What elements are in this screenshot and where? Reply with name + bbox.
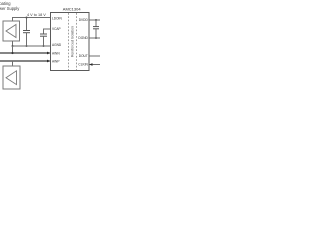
junction: C1 to rail	[26, 17, 28, 19]
junction: C1 to ground rail	[26, 45, 28, 47]
wire: VCAP pin wire	[44, 29, 51, 34]
svg-text:Reinforced Isolation: Reinforced Isolation	[71, 26, 75, 57]
capacitor C2 plates	[40, 33, 47, 35]
junction: ground rail to phase tap	[12, 45, 14, 47]
wire: DGND pin wire	[89, 37, 100, 39]
wire: LDOIN supply rail	[12, 17, 51, 19]
node: floating power supply label (clipped at left edge)	[0, 1, 20, 11]
svg-text:DOUT: DOUT	[79, 54, 88, 58]
wire: AINN input wire	[0, 52, 50, 54]
wire: AGND ground rail	[13, 45, 51, 47]
svg-text:AMC1304: AMC1304	[63, 7, 82, 12]
power supply U2 (floating supply block, box)	[3, 21, 20, 41]
arrow: AINN pin arrowhead	[47, 52, 50, 55]
isolation barrier left dashed line	[68, 13, 70, 70]
gate driver U3 (lower block, box)	[3, 66, 20, 89]
svg-text:DVDD: DVDD	[79, 18, 89, 22]
svg-text:DGND: DGND	[78, 36, 88, 40]
svg-text:AINN: AINN	[52, 52, 60, 56]
wire: lower box riser	[12, 61, 14, 66]
capacitor C3 upper lead	[95, 20, 97, 27]
svg-text:Power Supply: Power Supply	[0, 6, 20, 11]
capacitor C3 lower lead	[95, 29, 97, 38]
wire: AINP input wire	[0, 60, 50, 62]
isolation barrier right dashed line	[76, 13, 78, 70]
junction: DVDD to C3	[95, 19, 97, 21]
svg-text:AGND: AGND	[52, 43, 62, 47]
svg-text:LDOIN: LDOIN	[52, 16, 62, 20]
wire: ground to shunt top	[12, 46, 14, 53]
op-amp U1 AMC1304 body	[51, 13, 90, 71]
power supply U2 triangle symbol	[6, 25, 16, 38]
capacitor C1 upper lead	[26, 18, 28, 31]
svg-text:VCAP: VCAP	[52, 27, 61, 31]
junction: C2 to ground rail	[43, 45, 45, 47]
junction: AINN wire tap	[11, 52, 13, 54]
wire: CLKIN pin wire	[89, 64, 100, 66]
arrow: AINP pin arrowhead	[47, 60, 50, 63]
wire: supply box return riser	[12, 41, 14, 46]
svg-text:4 V to 18 V: 4 V to 18 V	[27, 13, 46, 17]
wire: DOUT pin wire	[89, 55, 100, 57]
wire: supply box output riser	[12, 18, 14, 22]
capacitor C2 lower lead	[43, 36, 45, 46]
capacitor C1 plates	[23, 30, 30, 32]
arrow: CLKIN input arrowhead	[89, 63, 92, 66]
capacitor C3 plates	[93, 26, 99, 28]
svg-text:AINP: AINP	[52, 60, 59, 64]
capacitor C1 lower lead	[26, 33, 28, 46]
svg-text:CLKIN: CLKIN	[78, 63, 88, 67]
wire: DVDD pin wire	[89, 19, 100, 21]
gate driver U3 triangle symbol	[6, 71, 17, 85]
junction: C3 to DGND	[95, 37, 97, 39]
